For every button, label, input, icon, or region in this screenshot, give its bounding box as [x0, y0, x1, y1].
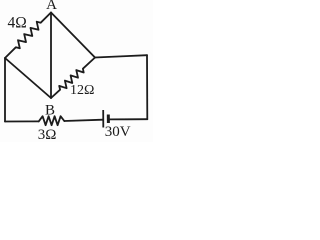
svg-text:3Ω: 3Ω	[38, 127, 57, 142]
wire resistor R3 to battery V1	[64, 120, 103, 121]
resistor R2 12ohm zigzag	[51, 58, 95, 99]
svg-text:B: B	[45, 103, 55, 119]
wire left side vertical	[4, 58, 6, 122]
resistor R1 4ohm zigzag	[5, 13, 51, 59]
svg-text:4Ω: 4Ω	[8, 15, 27, 32]
wire right side vertical	[146, 55, 148, 119]
wire A to B (vertical)	[50, 13, 52, 99]
wire A to right vertex	[51, 13, 95, 58]
battery V1 short thick plate	[107, 115, 110, 124]
svg-text:A: A	[46, 0, 57, 13]
wire bottom-left corner to resistor R3	[5, 120, 39, 122]
resistor R3 3ohm zigzag	[39, 116, 65, 125]
wire right vertex to top-right corner	[95, 55, 147, 57]
battery V1 long plate	[102, 110, 104, 128]
wire left vertex to B	[5, 58, 51, 98]
svg-text:30V: 30V	[105, 124, 131, 140]
wire battery V1 to bottom-right corner	[110, 118, 148, 120]
svg-text:12Ω: 12Ω	[70, 83, 94, 98]
